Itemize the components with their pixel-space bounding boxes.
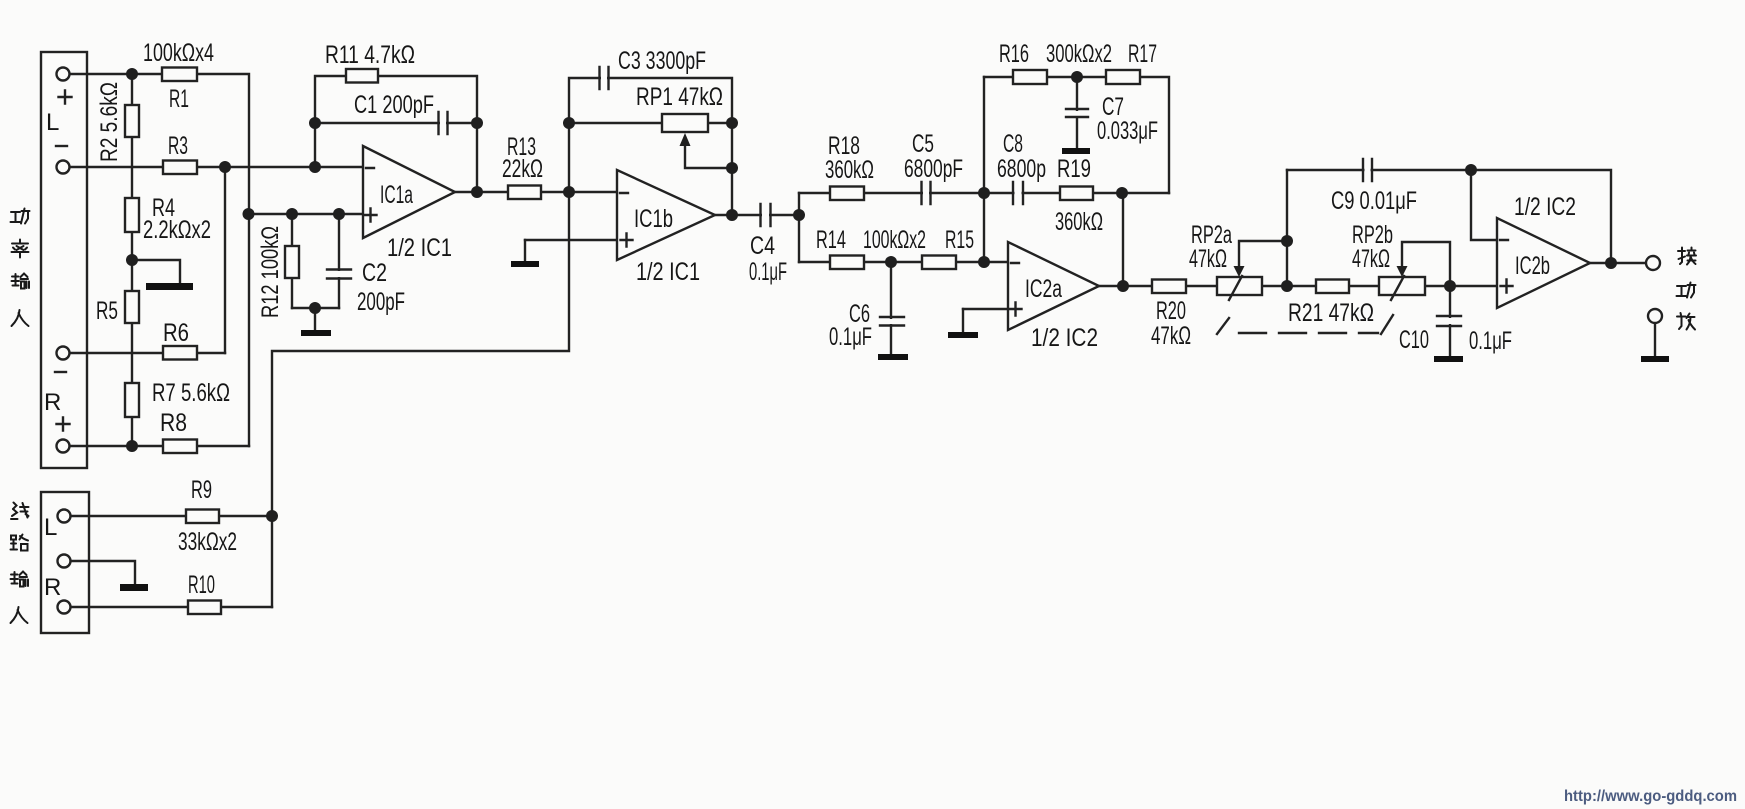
svg-text:R: R xyxy=(44,389,61,416)
svg-text:R20: R20 xyxy=(1156,297,1186,325)
svg-text:C10: C10 xyxy=(1399,326,1429,354)
svg-text:IC1b: IC1b xyxy=(634,205,673,233)
svg-text:R12 100kΩ: R12 100kΩ xyxy=(257,226,284,318)
svg-text:360kΩ: 360kΩ xyxy=(825,156,874,184)
svg-text:R: R xyxy=(44,574,61,601)
svg-text:R21 47kΩ: R21 47kΩ xyxy=(1288,299,1374,327)
svg-text:R2 5.6kΩ: R2 5.6kΩ xyxy=(96,82,123,162)
svg-text:22kΩ: 22kΩ xyxy=(502,155,543,183)
svg-text:L: L xyxy=(46,109,59,136)
svg-text:R19: R19 xyxy=(1057,155,1091,183)
svg-text:47kΩ: 47kΩ xyxy=(1151,322,1191,350)
svg-text:47kΩ: 47kΩ xyxy=(1352,245,1390,273)
svg-text:R17: R17 xyxy=(1128,40,1157,68)
svg-text:IC2b: IC2b xyxy=(1515,252,1550,280)
svg-text:200pF: 200pF xyxy=(357,288,405,316)
svg-text:0.1μF: 0.1μF xyxy=(749,258,787,286)
svg-text:100kΩx2: 100kΩx2 xyxy=(863,226,926,254)
svg-text:33kΩx2: 33kΩx2 xyxy=(178,528,237,556)
svg-text:R10: R10 xyxy=(188,571,215,599)
svg-text:IC1a: IC1a xyxy=(380,181,413,209)
svg-text:0.1μF: 0.1μF xyxy=(829,323,872,351)
svg-text:R15: R15 xyxy=(945,226,974,254)
svg-text:R3: R3 xyxy=(168,132,188,160)
svg-text:C3 3300pF: C3 3300pF xyxy=(618,47,706,75)
svg-text:C8: C8 xyxy=(1003,130,1023,158)
svg-text:L: L xyxy=(44,514,57,541)
svg-text:R5: R5 xyxy=(96,297,118,325)
svg-text:2.2kΩx2: 2.2kΩx2 xyxy=(143,216,211,244)
svg-text:R1: R1 xyxy=(169,85,189,113)
svg-text:R11 4.7kΩ: R11 4.7kΩ xyxy=(325,41,415,69)
svg-text:RP1 47kΩ: RP1 47kΩ xyxy=(636,83,723,111)
svg-text:0.1μF: 0.1μF xyxy=(1469,327,1512,355)
svg-text:C2: C2 xyxy=(362,259,387,287)
svg-text:R9: R9 xyxy=(191,476,212,504)
svg-text:C5: C5 xyxy=(912,130,934,158)
svg-text:R7 5.6kΩ: R7 5.6kΩ xyxy=(152,379,230,407)
svg-text:1/2 IC1: 1/2 IC1 xyxy=(636,258,700,286)
svg-text:0.033μF: 0.033μF xyxy=(1097,117,1158,145)
svg-text:R16: R16 xyxy=(999,40,1029,68)
svg-text:6800pF: 6800pF xyxy=(904,155,963,183)
svg-text:C1 200pF: C1 200pF xyxy=(354,91,434,119)
svg-text:C4: C4 xyxy=(750,232,775,260)
svg-text:360kΩ: 360kΩ xyxy=(1055,208,1103,236)
svg-text:1/2 IC1: 1/2 IC1 xyxy=(387,234,452,262)
svg-text:R14: R14 xyxy=(816,226,846,254)
svg-text:6800p: 6800p xyxy=(997,155,1046,183)
svg-text:C9 0.01μF: C9 0.01μF xyxy=(1331,187,1417,215)
svg-text:IC2a: IC2a xyxy=(1025,275,1062,303)
svg-text:100kΩx4: 100kΩx4 xyxy=(143,39,214,67)
svg-text:47kΩ: 47kΩ xyxy=(1189,245,1227,273)
svg-text:R8: R8 xyxy=(160,409,187,437)
svg-text:R6: R6 xyxy=(163,319,189,347)
svg-text:1/2 IC2: 1/2 IC2 xyxy=(1031,324,1098,352)
svg-text:http://www.go-gddq.com: http://www.go-gddq.com xyxy=(1564,788,1737,805)
svg-text:1/2 IC2: 1/2 IC2 xyxy=(1514,193,1576,221)
svg-text:300kΩx2: 300kΩx2 xyxy=(1046,40,1112,68)
